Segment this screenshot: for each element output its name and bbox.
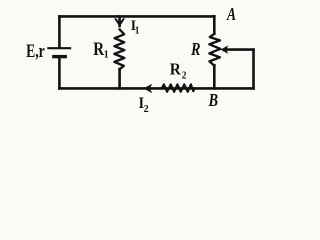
svg-text:E,r: E,r <box>26 40 45 62</box>
svg-text:R: R <box>190 38 200 59</box>
svg-text:2: 2 <box>144 104 149 115</box>
svg-text:1: 1 <box>135 26 140 37</box>
svg-text:B: B <box>208 89 219 110</box>
svg-text:1: 1 <box>104 49 109 61</box>
svg-text:A: A <box>226 5 236 24</box>
svg-text:2: 2 <box>182 70 187 82</box>
svg-text:R: R <box>170 61 181 79</box>
